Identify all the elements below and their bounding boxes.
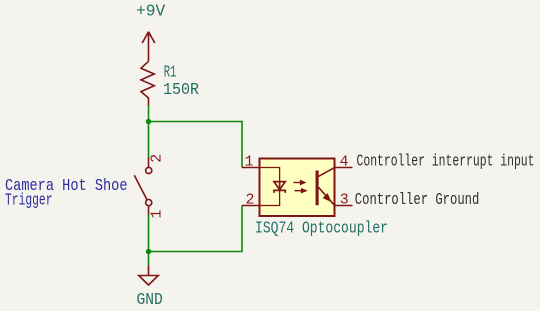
node A junction xyxy=(146,119,151,124)
svg-text:150R: 150R xyxy=(163,80,199,99)
svg-text:4: 4 xyxy=(339,154,348,171)
svg-text:ISQ74 Optocoupler: ISQ74 Optocoupler xyxy=(255,218,388,237)
wire node B to ground xyxy=(148,252,150,266)
phototransistor xyxy=(317,168,334,206)
opto pin 4 wire stub xyxy=(335,167,353,169)
switch SW1 xyxy=(134,158,151,215)
svg-text:2: 2 xyxy=(245,191,254,208)
opto pin 2 wire stub xyxy=(242,205,260,207)
svg-text:Controller Ground: Controller Ground xyxy=(355,190,480,209)
svg-text:2: 2 xyxy=(149,154,166,163)
wire switch to node B xyxy=(148,215,150,252)
svg-text:1: 1 xyxy=(149,209,166,218)
optocoupler U1 body xyxy=(260,159,335,217)
wire resistor to node A xyxy=(148,106,150,122)
light arrows xyxy=(294,181,306,193)
opto pin 1 wire stub xyxy=(242,167,260,169)
LED inside opto xyxy=(261,168,280,206)
emitter arrow xyxy=(324,194,331,201)
svg-text:1: 1 xyxy=(244,154,253,171)
svg-text:Trigger: Trigger xyxy=(5,192,53,211)
wire node A to opto pin 1 xyxy=(149,122,243,168)
svg-text:3: 3 xyxy=(340,192,349,209)
resistor R1 xyxy=(141,61,154,106)
wire node A to switch xyxy=(148,122,150,158)
svg-text:Controller interrupt input: Controller interrupt input xyxy=(357,151,535,170)
node B junction xyxy=(146,249,151,254)
wire node B to opto pin 2 xyxy=(149,206,243,252)
svg-text:R1: R1 xyxy=(164,63,177,82)
svg-text:GND: GND xyxy=(137,291,163,310)
svg-text:+9V: +9V xyxy=(136,3,166,22)
opto pin 3 wire stub xyxy=(335,205,353,207)
ground xyxy=(139,266,159,286)
power flag +9V xyxy=(142,32,155,62)
